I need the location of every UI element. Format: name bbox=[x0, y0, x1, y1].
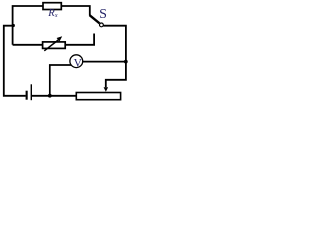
svg-text:V: V bbox=[74, 57, 83, 69]
slide rheostat R3 wiper arrowhead bbox=[104, 87, 109, 92]
slide rheostat R3 box bbox=[76, 93, 120, 100]
wire voltmeter right branch to right vertical bbox=[83, 61, 126, 63]
node junction dot left bbox=[12, 24, 15, 27]
rheostat R2 wire from inner-left vertical bbox=[13, 44, 43, 46]
node junction dot bottom (voltmeter tap) bbox=[48, 94, 52, 98]
svg-text:x: x bbox=[54, 13, 58, 19]
svg-text:S: S bbox=[99, 7, 107, 22]
wire voltmeter left branch bbox=[50, 65, 72, 96]
voltmeter V1 circle bbox=[70, 55, 83, 68]
switch S1 terminal circle bbox=[100, 23, 104, 27]
background bbox=[0, 0, 128, 102]
wire from Rx box to switch top bbox=[61, 6, 90, 16]
wire node: left branch from inner vertical to outer-left vertical bbox=[4, 26, 26, 96]
wire switch to right vertical down to bottom-right bbox=[103, 26, 126, 87]
node junction dot right bbox=[124, 60, 128, 64]
wire battery to slide rheostat box bbox=[32, 95, 77, 97]
wire top-left: left inner vertical up to top wire into Rx box bbox=[13, 6, 43, 45]
rheostat R2 arrow bbox=[44, 39, 59, 51]
switch S1 lever bbox=[90, 15, 100, 23]
rheostat R2 box bbox=[43, 42, 66, 49]
battery BT1 positive long plate bbox=[31, 84, 32, 100]
resistor Rx bbox=[43, 3, 61, 10]
wire rheostat to floating stub near switch bbox=[65, 34, 94, 45]
battery BT1 negative short plate bbox=[26, 91, 28, 100]
